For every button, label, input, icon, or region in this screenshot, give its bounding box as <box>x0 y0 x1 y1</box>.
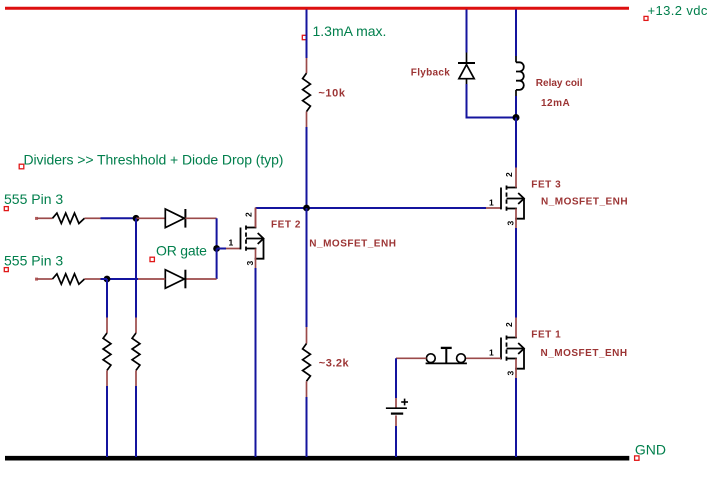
diode D-bottom (to OR node) <box>165 270 184 289</box>
+13.2V power rail <box>5 7 629 10</box>
wire: top series R to node A <box>101 217 137 219</box>
FET1 pin 2 drain lead <box>515 318 517 338</box>
diode D-top (to OR node) <box>165 209 184 228</box>
transistor FET3 N_MOSFET_ENH symbol <box>501 186 524 219</box>
svg-text:Flyback: Flyback <box>411 67 450 78</box>
svg-text:2: 2 <box>504 172 514 177</box>
svg-text:555 Pin 3: 555 Pin 3 <box>4 191 63 207</box>
resistor: divider pulldown (left, from node B) <box>106 318 108 334</box>
node marker for bottom 555 Pin 3 <box>4 268 8 272</box>
wire: flyback diode anode down and right to relay node <box>467 84 517 118</box>
svg-text:OR gate: OR gate <box>156 243 207 259</box>
wire: R ~10k down to mid node <box>306 127 308 208</box>
resistor ~3.2k <box>306 327 308 344</box>
svg-text:1: 1 <box>489 198 494 208</box>
svg-text:555 Pin 3: 555 Pin 3 <box>4 253 63 269</box>
flyback diode (cathode up) <box>466 53 468 65</box>
diode D-top anode lead <box>136 217 165 219</box>
wire: node A down to left divider R <box>135 218 137 317</box>
node marker for top 555 Pin 3 <box>4 207 8 211</box>
svg-text:~3.2k: ~3.2k <box>319 357 350 369</box>
FET2 pin 3 source lead <box>255 249 257 269</box>
wire: pushbutton to FET1 gate <box>465 357 501 359</box>
svg-text:FET 1: FET 1 <box>531 329 561 340</box>
svg-text:1.3mA max.: 1.3mA max. <box>313 23 387 39</box>
svg-text:N_MOSFET_ENH: N_MOSFET_ENH <box>541 197 628 208</box>
wire: relay node down to FET3 drain <box>515 118 517 168</box>
svg-text:N_MOSFET_ENH: N_MOSFET_ENH <box>541 348 628 359</box>
FET1 pin 3 source lead <box>515 359 517 379</box>
node marker for Dividers annotation <box>19 164 24 169</box>
svg-text:3: 3 <box>245 261 255 266</box>
wire: R ~3.2k down to ground rail <box>306 397 308 457</box>
junction: node B (bottom divider) <box>104 276 111 283</box>
pushbutton switch <box>426 348 467 364</box>
FET3 pin 3 source lead <box>515 209 517 229</box>
junction: node A (top divider) <box>133 215 140 222</box>
wire: pushbutton left to battery corner <box>396 357 426 359</box>
svg-text:2: 2 <box>504 322 514 327</box>
svg-text:12mA: 12mA <box>541 98 570 109</box>
svg-text:FET 3: FET 3 <box>531 180 561 191</box>
resistor: divider pulldown (right, from node A) <box>135 318 137 334</box>
svg-text:+13.2 vdc: +13.2 vdc <box>648 3 708 18</box>
wire: corner down to battery <box>395 358 397 398</box>
wire: rail down to relay coil <box>515 10 517 57</box>
svg-text:GND: GND <box>635 441 666 457</box>
ground rail <box>5 456 629 461</box>
wire: FET1 source down to ground rail <box>515 378 517 457</box>
wire: mid node down to R ~3.2k <box>306 208 308 327</box>
resistor ~10k <box>306 58 308 73</box>
svg-text:FET 2: FET 2 <box>271 219 301 230</box>
junction: relay/flyback node <box>513 114 520 121</box>
wire: left pulldown R to ground rail <box>106 386 108 457</box>
svg-text:3: 3 <box>506 221 516 226</box>
junction: OR output node <box>213 245 220 252</box>
svg-text:1: 1 <box>229 238 234 248</box>
svg-text:3: 3 <box>506 371 516 376</box>
wire: mid horizontal bus FET2 drain to FET3 gate <box>256 207 487 209</box>
node marker for +13.2 vdc <box>644 16 648 20</box>
wire: OR node down to D-bottom cathode <box>216 249 218 280</box>
wire: +13.2V rail down to R ~10k <box>306 10 308 59</box>
wire: relay coil to relay node <box>515 96 517 118</box>
svg-text:N_MOSFET_ENH: N_MOSFET_ENH <box>309 238 396 249</box>
wire: rail down to flyback diode <box>466 10 468 53</box>
wire: bottom series R to node B <box>101 278 108 280</box>
wire: D-top cathode down to OR node <box>216 218 218 248</box>
diode D-top cathode lead <box>185 217 216 219</box>
node marker for GND <box>635 456 639 460</box>
transistor FET2 N_MOSFET_ENH symbol <box>241 226 264 259</box>
wire: OR node to FET2 gate <box>217 248 226 250</box>
wire: node B down to left pulldown R <box>106 279 108 318</box>
svg-text:2: 2 <box>244 212 254 217</box>
wire: node B to D-bottom <box>107 278 138 280</box>
svg-text:Dividers >> Threshhold + Diode: Dividers >> Threshhold + Diode Drop (typ… <box>24 151 284 167</box>
FET2 drain lead up to mid bus <box>255 208 257 228</box>
resistor: bottom 555 series R <box>35 278 38 281</box>
wire: FET2 source down to ground rail <box>255 268 257 457</box>
relay coil (inductor) <box>515 56 517 62</box>
node marker for OR gate annotation <box>150 257 154 261</box>
battery <box>395 398 397 408</box>
svg-text:~10k: ~10k <box>318 88 345 100</box>
svg-text:Relay coil: Relay coil <box>536 78 583 89</box>
diode D-bottom cathode lead <box>185 278 216 280</box>
wire: FET3 source down to FET1 drain <box>515 228 517 318</box>
transistor FET1 N_MOSFET_ENH symbol <box>501 336 524 369</box>
svg-text:1: 1 <box>489 348 494 358</box>
diode D-bottom anode lead <box>138 278 165 280</box>
FET3 pin 2 drain lead <box>515 168 517 188</box>
wire: right pulldown R to ground rail <box>135 386 137 457</box>
FET2 pin 2 drain lead <box>255 208 257 228</box>
resistor: top 555 series R <box>35 217 38 220</box>
junction: mid node <box>303 205 310 212</box>
node marker for 1.3mA annotation <box>302 35 306 39</box>
wire: battery negative down to ground rail <box>395 426 397 457</box>
